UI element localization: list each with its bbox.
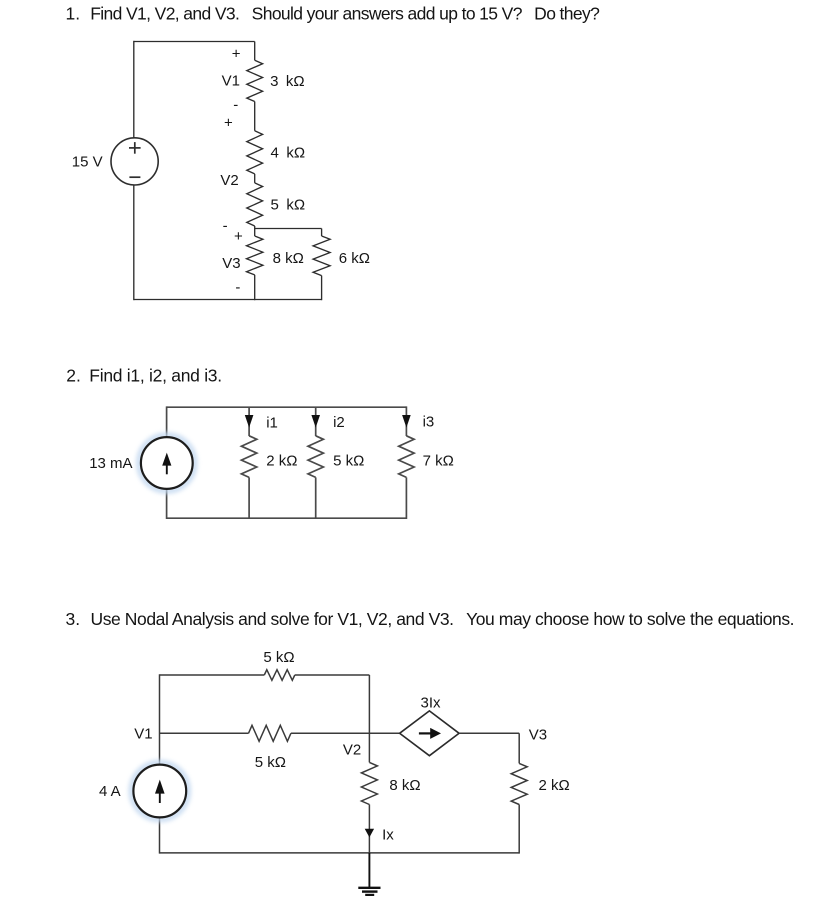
wire bottom (circuit 2) xyxy=(167,517,407,519)
svg-text:Ix: Ix xyxy=(382,827,394,844)
svg-text:V3: V3 xyxy=(222,255,240,272)
svg-text:5 kΩ: 5 kΩ xyxy=(271,197,306,214)
wire top right segment (c3) xyxy=(295,674,370,676)
wire right vertical lower (c3) xyxy=(518,805,520,854)
resistor R1 3k zigzag xyxy=(247,60,263,101)
svg-text:+: + xyxy=(234,228,243,245)
svg-text:4 kΩ: 4 kΩ xyxy=(271,144,306,161)
svg-text:3 kΩ: 3 kΩ xyxy=(270,73,305,90)
current source 4A arrow head xyxy=(155,780,165,794)
wire bottom (circuit 1) xyxy=(134,299,322,301)
svg-text:2.: 2. xyxy=(66,366,81,386)
current source arrow head xyxy=(162,453,171,466)
resistor R2 4k zigzag xyxy=(247,131,263,174)
svg-text:13 mA: 13 mA xyxy=(89,455,132,472)
ground bar 3 xyxy=(365,894,374,896)
wire left below source (c3) xyxy=(159,817,161,853)
wire middle vertical lower (c3) xyxy=(368,805,370,854)
svg-text:8 kΩ: 8 kΩ xyxy=(273,250,304,267)
svg-text:Find V1, V2, and V3. Should y: Find V1, V2, and V3. Should your answers… xyxy=(90,4,600,24)
wire middle vertical upper (c3) xyxy=(368,675,370,762)
arrow i3 xyxy=(402,415,411,428)
wire mid left segment (c3) xyxy=(160,732,249,734)
voltage source V=15V circle xyxy=(111,138,158,185)
svg-text:+: + xyxy=(232,46,241,63)
svg-text:i3: i3 xyxy=(423,414,435,431)
resistor 5k mid zigzag xyxy=(249,725,291,741)
svg-text:3Ix: 3Ix xyxy=(421,694,442,711)
wire left lower (circuit 1) xyxy=(133,185,135,300)
svg-text:2 kΩ: 2 kΩ xyxy=(266,453,297,470)
svg-text:+: + xyxy=(224,114,233,131)
ground stem xyxy=(368,853,370,888)
dependent source arrow head xyxy=(430,728,441,739)
svg-text:Use Nodal Analysis and solve f: Use Nodal Analysis and solve for V1, V2,… xyxy=(91,609,795,629)
wire mid to diamond (c3) xyxy=(291,732,400,734)
resistor 7k zigzag xyxy=(399,436,414,478)
current source arrow shaft xyxy=(166,459,168,474)
branch i3 wire upper xyxy=(405,406,407,436)
ground bar 1 xyxy=(358,887,380,889)
svg-text:-: - xyxy=(233,97,238,114)
wire R1 to R2 xyxy=(254,102,256,131)
svg-text:V2: V2 xyxy=(343,742,361,759)
branch i1 wire lower xyxy=(248,477,250,519)
resistor 5k zigzag (c2) xyxy=(308,436,323,478)
wire bottom (circuit 3) xyxy=(160,852,520,854)
resistor R4 8k zigzag xyxy=(247,236,263,275)
resistor 5k top zigzag xyxy=(264,670,295,681)
wire from top to R1 xyxy=(254,42,256,61)
current source 4A arrow shaft xyxy=(159,787,161,803)
resistor R5 6k zigzag xyxy=(313,236,330,276)
wire top (circuit 2) xyxy=(167,406,407,408)
svg-text:15 V: 15 V xyxy=(72,154,103,171)
svg-text:5 kΩ: 5 kΩ xyxy=(255,754,286,771)
svg-text:Find i1, i2, and i3.: Find i1, i2, and i3. xyxy=(89,366,222,386)
wire R3 to node xyxy=(254,226,256,236)
wire diamond to right (c3) xyxy=(459,732,519,734)
svg-text:3.: 3. xyxy=(66,609,81,629)
wire top (circuit 1) xyxy=(134,41,255,43)
current source 4A glow xyxy=(131,763,188,820)
svg-text:4 A: 4 A xyxy=(99,783,121,800)
wire top left segment (c3) xyxy=(160,674,265,676)
wire left branch (circuit 1) xyxy=(133,41,135,138)
current source 13mA glow xyxy=(139,435,195,491)
resistor R3 5k zigzag xyxy=(247,183,263,226)
wire left upper (c2) xyxy=(166,406,168,437)
voltage source minus mark xyxy=(129,176,140,178)
svg-text:1.: 1. xyxy=(66,4,81,24)
svg-text:5 kΩ: 5 kΩ xyxy=(263,649,294,666)
svg-text:V2: V2 xyxy=(220,172,238,189)
ground bar 2 xyxy=(362,890,378,892)
wire 6k branch top xyxy=(321,229,323,237)
wire left vertical (c3) xyxy=(159,674,161,765)
svg-text:5 kΩ: 5 kΩ xyxy=(333,453,364,470)
wire 6k branch bottom xyxy=(321,276,323,301)
wire left lower (c2) xyxy=(166,489,168,519)
wire R4 to bottom xyxy=(254,275,256,300)
dependent source arrow shaft xyxy=(419,732,431,734)
svg-text:6 kΩ: 6 kΩ xyxy=(339,250,370,267)
svg-text:-: - xyxy=(235,279,240,296)
resistor 2k zigzag (c3) xyxy=(511,763,527,804)
branch i2 wire upper xyxy=(315,407,317,436)
arrow i2 xyxy=(311,415,320,428)
svg-text:V1: V1 xyxy=(222,72,240,89)
current source 13mA circle xyxy=(141,437,193,489)
wire R2 to R3 xyxy=(254,174,256,183)
node wire to 6k branch xyxy=(255,228,322,230)
svg-text:2 kΩ: 2 kΩ xyxy=(539,777,570,794)
branch i3 wire lower xyxy=(405,477,407,519)
svg-text:7 kΩ: 7 kΩ xyxy=(423,453,454,470)
svg-text:8 kΩ: 8 kΩ xyxy=(389,777,420,794)
arrow Ix xyxy=(365,829,374,838)
svg-text:V1: V1 xyxy=(134,725,152,742)
dependent source 3Ix diamond xyxy=(400,711,460,756)
svg-text:-: - xyxy=(223,218,228,235)
svg-text:i2: i2 xyxy=(333,414,345,431)
arrow i1 xyxy=(245,415,254,428)
resistor 8k zigzag (c3) xyxy=(361,762,377,804)
voltage source plus mark xyxy=(129,147,141,149)
svg-text:i1: i1 xyxy=(266,415,278,432)
branch i1 wire upper xyxy=(248,407,250,436)
svg-text:V3: V3 xyxy=(529,727,547,744)
current source 4A circle xyxy=(133,765,186,818)
wire right vertical upper (c3) xyxy=(518,733,520,763)
branch i2 wire lower xyxy=(315,477,317,519)
resistor 2k zigzag xyxy=(241,436,256,478)
